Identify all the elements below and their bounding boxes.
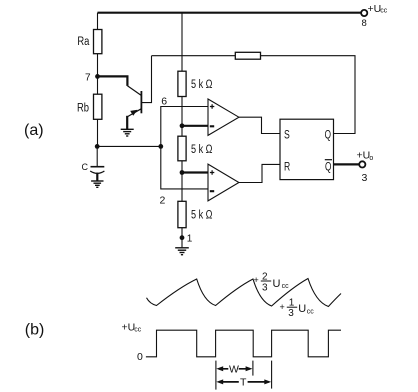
- svg-text:0: 0: [137, 351, 143, 363]
- wire node 7 to transistor collector (bold): [98, 76, 128, 86]
- transistor Q1 emitter arrow: [130, 110, 137, 116]
- svg-text:+: +: [280, 302, 285, 312]
- svg-text:2: 2: [160, 195, 166, 207]
- capacitor voltage waveform: [147, 279, 342, 307]
- transistor Q1 base bar: [140, 91, 142, 113]
- fraction bar 1/3: [287, 306, 297, 308]
- node C junction: [95, 144, 100, 149]
- transistor Q1 emitter lead: [128, 109, 142, 117]
- svg-text:cc: cc: [380, 8, 388, 15]
- wire divider to comparator2 non-inverting (bold): [182, 171, 208, 173]
- svg-text:U: U: [298, 303, 306, 315]
- resistor Ra: [94, 30, 102, 54]
- comparator 1 plus sign: [210, 104, 214, 108]
- dimension tick left: [215, 361, 217, 390]
- svg-text:6: 6: [161, 96, 167, 108]
- svg-text:(a): (a): [24, 122, 44, 139]
- resistor R1 5k: [178, 71, 186, 96]
- resistor base feedback: [235, 52, 260, 59]
- fraction bar 2/3: [261, 280, 271, 282]
- dimension arrow T: [216, 377, 271, 389]
- comparator 1 minus sign: [210, 125, 214, 127]
- wire Q feedback to base resistor: [261, 56, 356, 134]
- wire +Ucc top rail: [98, 12, 362, 14]
- transistor Q1 collector lead: [127, 86, 141, 96]
- dimension arrow W: [216, 363, 252, 375]
- op-amp comparator 1: [208, 99, 239, 135]
- svg-text:S: S: [284, 127, 290, 141]
- svg-text:1: 1: [187, 234, 193, 245]
- terminal pin 3 (+Uo): [359, 161, 365, 167]
- node pin 1: [180, 235, 185, 240]
- svg-text:Q: Q: [325, 127, 331, 141]
- svg-text:5 k Ω: 5 k Ω: [191, 79, 213, 91]
- svg-text:T: T: [240, 377, 247, 389]
- wire emitter to ground (bold): [126, 116, 128, 129]
- wire comparator1 output to S: [239, 117, 280, 133]
- label +1/3 Ucc: [280, 298, 315, 319]
- label +2/3 Ucc: [254, 272, 290, 294]
- ground (transistor emitter): [121, 129, 134, 136]
- svg-text:5 k Ω: 5 k Ω: [191, 144, 213, 156]
- wire Rb branch: [97, 76, 99, 146]
- svg-text:+U: +U: [122, 321, 136, 333]
- resistor R2 5k: [178, 136, 186, 161]
- svg-text:U: U: [273, 278, 281, 290]
- svg-text:Q: Q: [325, 159, 331, 173]
- label Q-bar: [325, 159, 332, 173]
- svg-text:cc: cc: [134, 327, 142, 334]
- comparator 2 minus sign: [210, 190, 214, 192]
- terminal pin 8 (+Ucc): [361, 10, 367, 16]
- wire capacitor node to trigger/threshold bus: [97, 145, 161, 147]
- svg-text:7: 7: [85, 73, 91, 84]
- svg-text:Rb: Rb: [77, 103, 89, 115]
- ground (capacitor): [91, 181, 103, 187]
- svg-text:Ra: Ra: [77, 36, 89, 48]
- label +Ucc (waveform): [122, 321, 142, 333]
- capacitor C top plate: [91, 166, 105, 168]
- resistor R3 5k: [178, 201, 186, 227]
- wire capacitor to ground (bold): [96, 173, 98, 181]
- svg-text:R: R: [284, 159, 290, 173]
- label +Uo: [357, 149, 374, 161]
- node 7 junction: [95, 74, 100, 79]
- ground (pin 1): [175, 248, 189, 255]
- svg-text:(b): (b): [25, 322, 45, 339]
- wire node C to capacitor: [96, 146, 98, 166]
- svg-text:3: 3: [288, 308, 294, 319]
- dimension tick middle: [252, 361, 254, 376]
- wire threshold/trigger bus: [161, 107, 208, 189]
- wire feedback resistor to transistor base: [152, 55, 236, 57]
- wire Ra branch: [97, 13, 99, 77]
- svg-text:cc: cc: [282, 283, 290, 290]
- resistor Rb: [94, 94, 102, 119]
- capacitor C bottom plate: [90, 171, 104, 173]
- node divider lower junction: [180, 170, 185, 175]
- svg-text:C: C: [82, 162, 89, 172]
- svg-text:cc: cc: [307, 308, 315, 315]
- svg-text:+: +: [254, 275, 259, 285]
- svg-text:8: 8: [362, 18, 367, 29]
- dimension tick right: [271, 361, 273, 389]
- svg-text:W: W: [229, 363, 239, 375]
- junction on bus: [158, 144, 163, 149]
- node divider upper junction: [180, 123, 185, 128]
- flip-flop U2: [280, 119, 334, 179]
- wire divider to comparator1 inverting (bold): [182, 125, 208, 127]
- label +Ucc (pin 8): [368, 3, 388, 15]
- svg-text:5 k Ω: 5 k Ω: [191, 210, 213, 222]
- wire comparator2 output to R: [239, 164, 280, 182]
- svg-text:3: 3: [262, 283, 268, 294]
- op-amp comparator 2: [208, 164, 239, 201]
- wire Q-bar output (bold): [334, 163, 360, 165]
- wire transistor base to feedback resistor: [141, 56, 151, 103]
- svg-text:o: o: [369, 155, 373, 162]
- comparator 2 plus sign: [210, 170, 214, 174]
- wire voltage divider: [181, 13, 183, 248]
- svg-text:+U: +U: [357, 149, 371, 161]
- output square waveform: [146, 330, 341, 357]
- svg-text:+U: +U: [368, 3, 382, 15]
- svg-text:3: 3: [362, 172, 368, 184]
